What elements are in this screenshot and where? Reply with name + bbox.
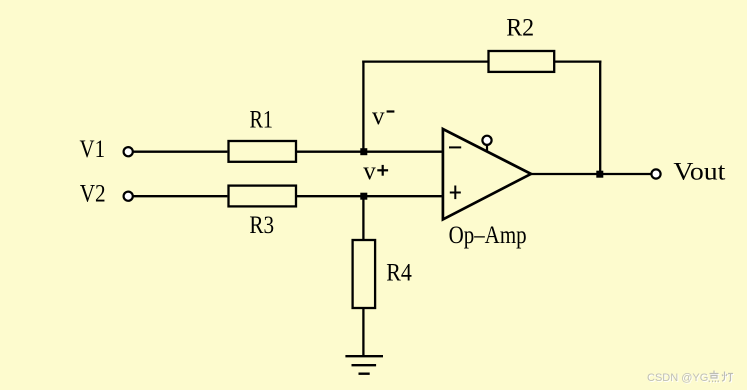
svg-text:V1: V1 (80, 136, 106, 163)
svg-text:R1: R1 (250, 106, 274, 133)
wire V1 terminal to R1 (133, 151, 228, 153)
terminal Vout (651, 169, 660, 178)
wire feedback right down to output node (599, 60, 601, 174)
svg-text:R3: R3 (249, 212, 274, 239)
op-amp non-inverting input plus symbol (450, 186, 461, 200)
watermark (647, 370, 734, 384)
resistor R1 (229, 141, 297, 162)
node v- junction (360, 148, 367, 155)
wire v- node up to feedback (362, 60, 364, 151)
wire feedback top left to R2 (362, 60, 488, 62)
svg-text:v: v (363, 158, 376, 185)
label v- : superscript minus (387, 110, 395, 112)
op-amp balance pin bubble (482, 136, 491, 145)
terminal V2 (124, 192, 133, 201)
resistor R2 (489, 51, 555, 72)
svg-text:Op–Amp: Op–Amp (449, 222, 527, 249)
wire v+ node down to R4 (362, 196, 364, 240)
label v+ : plus sign (377, 165, 388, 176)
svg-text:R2: R2 (506, 14, 534, 41)
node output junction (596, 171, 603, 178)
op-amp U1 triangle (443, 129, 531, 219)
op-amp inverting input minus symbol (449, 146, 461, 148)
resistor R4 (353, 240, 376, 308)
wire R3 to v+ node and op-amp non-inverting input (296, 195, 442, 197)
wire R1 to v- node and op-amp inverting input (296, 151, 442, 153)
svg-text:R4: R4 (386, 260, 412, 287)
op-amp balance pin stem (486, 144, 488, 152)
terminal V1 (124, 147, 133, 156)
wire R2 to feedback right corner (554, 60, 601, 62)
wire op-amp output to Vout terminal (531, 173, 652, 175)
ground (345, 356, 383, 374)
node v+ junction (360, 193, 367, 200)
wire R4 to ground (362, 308, 364, 355)
resistor R3 (229, 186, 297, 207)
svg-text:Vout: Vout (673, 159, 725, 186)
svg-text:v: v (372, 103, 385, 130)
wire V2 terminal to R3 (133, 195, 228, 197)
svg-text:V2: V2 (80, 181, 106, 208)
